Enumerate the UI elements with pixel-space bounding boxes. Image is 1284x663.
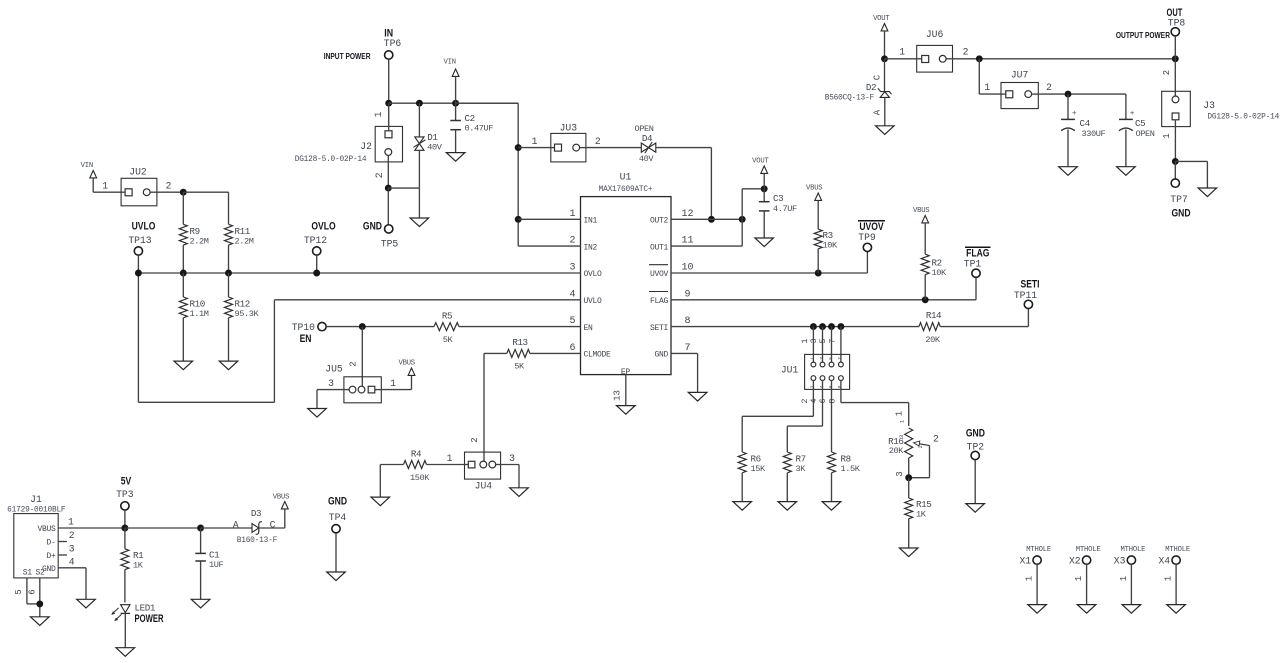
svg-text:R1: R1 bbox=[133, 550, 144, 561]
svg-text:TP13: TP13 bbox=[128, 235, 151, 246]
svg-text:12: 12 bbox=[681, 209, 693, 220]
svg-text:VBUS: VBUS bbox=[37, 525, 56, 534]
wire VBUS rail bbox=[125, 527, 201, 529]
svg-text:JU3: JU3 bbox=[560, 123, 578, 134]
wire OUT2 node up bbox=[741, 189, 743, 220]
junction R9 top bbox=[180, 189, 187, 196]
svg-text:7: 7 bbox=[827, 338, 837, 343]
junction R2 bottom bbox=[922, 296, 929, 303]
svg-text:6: 6 bbox=[27, 589, 37, 594]
wire R4 to JU4 bbox=[427, 464, 465, 466]
junction VOUT-D2 bbox=[881, 55, 888, 62]
wire U1 pin11 OUT1 bbox=[671, 245, 742, 247]
svg-text:2: 2 bbox=[470, 437, 480, 442]
svg-text:1: 1 bbox=[373, 111, 384, 117]
svg-text:J2: J2 bbox=[360, 141, 372, 152]
junction J2-D1 gnd node bbox=[385, 185, 392, 192]
resistor R15 1K bbox=[908, 478, 910, 498]
svg-text:U1: U1 bbox=[620, 172, 632, 183]
svg-text:MTHOLE: MTHOLE bbox=[1076, 546, 1101, 554]
wire TP13 down bbox=[137, 255, 139, 402]
ground (LED1) bbox=[116, 648, 135, 657]
svg-text:1K: 1K bbox=[916, 510, 927, 520]
svg-text:CLMODE: CLMODE bbox=[584, 351, 612, 360]
wire D4 to OUT2 node bbox=[656, 147, 712, 149]
svg-text:INPUT POWER: INPUT POWER bbox=[324, 51, 371, 61]
svg-text:VOUT: VOUT bbox=[752, 158, 769, 166]
ground (X3) bbox=[1122, 605, 1141, 614]
svg-text:1: 1 bbox=[1162, 133, 1172, 138]
svg-text:5V: 5V bbox=[121, 476, 132, 488]
svg-text:OUT: OUT bbox=[1167, 5, 1183, 18]
svg-text:C3: C3 bbox=[773, 193, 783, 204]
ground (J3) bbox=[1198, 188, 1217, 197]
wire to U1 pin1 IN1 bbox=[518, 218, 580, 220]
ground (X2) bbox=[1077, 605, 1096, 614]
wire D1 node to ground bbox=[418, 188, 420, 218]
wire input bus to corner bbox=[456, 102, 519, 104]
wire to U1 pin2 IN2 bbox=[518, 245, 580, 247]
svg-text:D3: D3 bbox=[251, 508, 261, 519]
svg-text:4.7UF: 4.7UF bbox=[773, 204, 797, 214]
svg-text:X1: X1 bbox=[1019, 556, 1031, 567]
wire R5 to U1 pin5 EN bbox=[459, 326, 581, 328]
wire JU7 branch bbox=[978, 59, 980, 94]
svg-text:C: C bbox=[872, 74, 882, 80]
svg-text:95.3K: 95.3K bbox=[235, 309, 260, 319]
ground (R8) bbox=[822, 502, 841, 511]
svg-text:EN: EN bbox=[300, 333, 312, 345]
wire J2 pin1 bbox=[388, 103, 390, 131]
svg-text:D-: D- bbox=[46, 539, 55, 548]
label OUTPUT POWER bbox=[1116, 30, 1171, 40]
svg-text:TP3: TP3 bbox=[116, 489, 134, 500]
svg-text:R12: R12 bbox=[235, 299, 250, 310]
svg-text:X2: X2 bbox=[1069, 556, 1081, 567]
wire JU1 pin2 to R6 bbox=[812, 381, 814, 417]
svg-text:R6: R6 bbox=[751, 454, 761, 465]
wire U1 pin12 OUT2 bbox=[671, 218, 742, 220]
svg-text:+: + bbox=[1072, 110, 1077, 118]
svg-text:JU6: JU6 bbox=[926, 29, 944, 40]
wire D3 cathode to VBUS bbox=[259, 527, 285, 529]
svg-text:1: 1 bbox=[390, 378, 396, 389]
svg-text:X4: X4 bbox=[1158, 556, 1170, 567]
svg-text:R10: R10 bbox=[190, 299, 205, 310]
svg-text:2: 2 bbox=[595, 136, 601, 147]
ground (U1 EP) bbox=[617, 406, 636, 415]
svg-text:GND: GND bbox=[328, 496, 347, 508]
svg-text:1: 1 bbox=[899, 47, 905, 58]
svg-text:1: 1 bbox=[1119, 576, 1129, 581]
ground (C3) bbox=[755, 238, 774, 247]
wire JU1 pin4 to R7 bbox=[822, 381, 824, 427]
junction IN1 bbox=[515, 216, 522, 223]
svg-text:JU2: JU2 bbox=[129, 167, 147, 178]
svg-text:3K: 3K bbox=[796, 464, 807, 474]
svg-text:MAX17609ATC+: MAX17609ATC+ bbox=[599, 186, 653, 194]
svg-text:2: 2 bbox=[69, 530, 75, 541]
svg-text:R14: R14 bbox=[926, 310, 942, 321]
svg-text:20K: 20K bbox=[889, 446, 905, 456]
svg-text:5K: 5K bbox=[514, 362, 525, 372]
svg-text:POWER: POWER bbox=[135, 613, 164, 626]
svg-text:R7: R7 bbox=[796, 454, 806, 465]
svg-text:1UF: 1UF bbox=[209, 560, 224, 570]
wire TP10 to R5 bbox=[326, 326, 434, 328]
wire TP6 to input node bbox=[388, 59, 390, 103]
svg-text:UVOV: UVOV bbox=[650, 270, 669, 279]
test point TP4 GND bbox=[328, 496, 347, 508]
svg-text:B160-13-F: B160-13-F bbox=[237, 537, 278, 545]
svg-text:3: 3 bbox=[509, 453, 515, 464]
test point TP2 GND bbox=[966, 428, 985, 440]
ground (C4) bbox=[1059, 167, 1078, 176]
svg-text:6: 6 bbox=[569, 343, 575, 354]
resistor R11 2.2M bbox=[228, 192, 230, 224]
wire U1 pin10 UVOV bbox=[671, 272, 867, 274]
svg-text:10K: 10K bbox=[932, 268, 948, 278]
ground (X1) bbox=[1028, 605, 1047, 614]
wire EN tap to JU5 bbox=[361, 327, 363, 387]
junction TP12-bus bbox=[313, 270, 320, 277]
test point TP3 5V bbox=[121, 476, 132, 488]
svg-text:X3: X3 bbox=[1114, 556, 1126, 567]
svg-text:11: 11 bbox=[681, 236, 693, 247]
LED LED1 POWER bbox=[121, 605, 130, 613]
ground (C1) bbox=[191, 599, 210, 608]
svg-text:0.47UF: 0.47UF bbox=[465, 123, 494, 133]
svg-text:A: A bbox=[233, 519, 239, 530]
svg-text:1: 1 bbox=[1074, 576, 1084, 581]
svg-text:40V: 40V bbox=[427, 143, 443, 153]
ground (R6) bbox=[733, 502, 752, 511]
svg-text:OVLO: OVLO bbox=[584, 270, 603, 279]
test point TP8 OUT bbox=[1167, 5, 1183, 18]
wire to R11 bbox=[183, 191, 228, 193]
svg-text:+: + bbox=[1130, 110, 1135, 118]
U1 pin 13 EP stub bbox=[625, 375, 627, 406]
wire R14 to TP11 bbox=[940, 326, 1028, 328]
svg-text:TP8: TP8 bbox=[1168, 18, 1186, 29]
svg-text:IN2: IN2 bbox=[584, 243, 598, 252]
svg-text:VIN: VIN bbox=[444, 59, 456, 67]
svg-text:JU5: JU5 bbox=[325, 364, 343, 375]
svg-text:R15: R15 bbox=[916, 499, 931, 510]
ground (X4) bbox=[1167, 605, 1186, 614]
svg-text:8: 8 bbox=[837, 385, 843, 388]
svg-text:4: 4 bbox=[69, 556, 75, 567]
svg-text:MTHOLE: MTHOLE bbox=[1165, 546, 1190, 554]
wire JU6 to OUT node bbox=[953, 58, 1176, 60]
svg-text:3: 3 bbox=[898, 435, 905, 438]
svg-text:5K: 5K bbox=[443, 335, 454, 345]
junction JU3 tap bbox=[515, 144, 522, 151]
svg-text:DG128-5.0-02P-14: DG128-5.0-02P-14 bbox=[295, 156, 367, 164]
test point TP11 SETI bbox=[1020, 279, 1039, 291]
ground (R15) bbox=[899, 548, 918, 557]
junction JU1 pin 3 bbox=[819, 323, 826, 330]
svg-text:3: 3 bbox=[69, 543, 75, 554]
ground (J1 GND) bbox=[77, 599, 96, 608]
op-amp U1 MAX17609ATC+ body bbox=[581, 197, 672, 375]
resistor R5 5K bbox=[434, 323, 459, 331]
junction R16-R15 bbox=[905, 474, 912, 481]
svg-text:1: 1 bbox=[895, 411, 905, 416]
svg-text:1: 1 bbox=[1025, 576, 1035, 581]
ground (JU4) bbox=[510, 488, 529, 497]
label INPUT POWER bbox=[324, 51, 371, 61]
svg-text:2: 2 bbox=[1162, 70, 1172, 75]
junction C3 top / VOUT bbox=[761, 185, 768, 192]
wire J3 pin1 down bbox=[1174, 120, 1176, 162]
svg-text:2: 2 bbox=[963, 47, 969, 58]
junction R9-R10 bbox=[180, 270, 187, 277]
junction JU5 tap bbox=[359, 323, 366, 330]
junction TP3-VBUS bbox=[121, 525, 128, 532]
resistor R12 95.3K bbox=[228, 273, 230, 297]
wire JU5 pin1 to VBUS bbox=[381, 389, 411, 391]
svg-text:2: 2 bbox=[349, 361, 359, 366]
U1 pin 7 GND wire bbox=[671, 352, 698, 354]
capacitor C3 4.7UF bbox=[763, 189, 765, 202]
svg-text:2.2M: 2.2M bbox=[190, 237, 209, 247]
svg-text:7: 7 bbox=[837, 357, 843, 360]
junction JU1 pin 1 bbox=[810, 323, 817, 330]
capacitor C4 330UF bbox=[1067, 94, 1069, 119]
wire down to U1 inputs bbox=[517, 103, 519, 246]
svg-text:VBUS: VBUS bbox=[806, 185, 822, 193]
wire J2 pin2 bbox=[387, 155, 389, 188]
svg-text:R2: R2 bbox=[932, 258, 942, 269]
ground (R7) bbox=[778, 502, 797, 511]
svg-text:IN1: IN1 bbox=[584, 217, 598, 226]
svg-text:TP6: TP6 bbox=[384, 38, 402, 49]
svg-text:VOUT: VOUT bbox=[873, 15, 890, 23]
svg-text:1: 1 bbox=[810, 357, 816, 360]
ground (R10) bbox=[174, 361, 193, 370]
svg-text:5: 5 bbox=[14, 589, 24, 594]
svg-text:MTHOLE: MTHOLE bbox=[1121, 546, 1146, 554]
wire OVLO bus to U1 pin3 bbox=[138, 272, 580, 274]
resistor R6 15K bbox=[738, 452, 746, 473]
svg-text:EN: EN bbox=[584, 324, 594, 333]
svg-text:1K: 1K bbox=[133, 561, 144, 571]
svg-text:2: 2 bbox=[810, 385, 816, 388]
resistor R8 1.5K bbox=[828, 452, 836, 473]
svg-text:2.2M: 2.2M bbox=[235, 237, 254, 247]
junction JU1 pin 7 bbox=[837, 323, 844, 330]
svg-text:1: 1 bbox=[984, 82, 990, 93]
junction R3 bottom bbox=[815, 270, 822, 277]
resistor R7 3K bbox=[783, 452, 791, 473]
svg-text:S2: S2 bbox=[35, 569, 45, 578]
junction JU7 tap bbox=[976, 55, 983, 62]
wire JU2 pin2 bbox=[157, 191, 183, 193]
capacitor C1 1UF bbox=[200, 528, 202, 553]
wire U1 pin8 SETI bbox=[671, 326, 919, 328]
junction D4-OUT2 bbox=[708, 216, 715, 223]
svg-text:D2: D2 bbox=[866, 82, 876, 93]
svg-text:10: 10 bbox=[681, 263, 693, 274]
junction TP13-bus bbox=[135, 270, 142, 277]
wire J3 to ground bbox=[1175, 160, 1207, 162]
svg-text:13: 13 bbox=[613, 390, 623, 401]
svg-text:TP4: TP4 bbox=[329, 512, 347, 523]
svg-text:8: 8 bbox=[827, 398, 837, 403]
ground (input) bbox=[410, 218, 429, 227]
svg-text:OVLO: OVLO bbox=[311, 220, 336, 232]
svg-text:1.5K: 1.5K bbox=[841, 464, 861, 474]
svg-text:TP11: TP11 bbox=[1014, 290, 1037, 301]
wire JU3 to D4 bbox=[586, 147, 641, 149]
svg-text:B560CQ-13-F: B560CQ-13-F bbox=[825, 95, 875, 103]
svg-text:C1: C1 bbox=[209, 550, 220, 561]
svg-text:R4: R4 bbox=[411, 449, 422, 460]
svg-text:R11: R11 bbox=[235, 226, 251, 237]
svg-text:1: 1 bbox=[569, 209, 575, 220]
svg-text:VBUS: VBUS bbox=[273, 494, 289, 502]
test point TP9 UVOV bbox=[859, 221, 884, 233]
svg-text:UVLO: UVLO bbox=[584, 297, 603, 306]
svg-text:J1: J1 bbox=[30, 494, 42, 505]
svg-text:5: 5 bbox=[828, 357, 834, 360]
svg-text:JU4: JU4 bbox=[475, 481, 493, 492]
wire R13 to U1 pin6 bbox=[530, 352, 581, 354]
svg-text:S1: S1 bbox=[23, 569, 33, 578]
svg-text:OUT2: OUT2 bbox=[650, 217, 669, 226]
svg-text:7: 7 bbox=[684, 343, 690, 354]
svg-text:R8: R8 bbox=[841, 454, 851, 465]
ground (J1 shield) bbox=[31, 617, 50, 626]
svg-text:3: 3 bbox=[819, 357, 825, 360]
test point TP5 GND bbox=[363, 220, 382, 232]
wire R13 to JU4 pin2 bbox=[484, 352, 507, 354]
svg-text:2: 2 bbox=[569, 236, 575, 247]
svg-text:3: 3 bbox=[895, 471, 905, 476]
connector J3 bbox=[1162, 91, 1191, 126]
wire JU5 pin3 to ground bbox=[317, 389, 344, 391]
ground (TP4) bbox=[327, 572, 346, 581]
svg-text:1.1M: 1.1M bbox=[190, 309, 209, 319]
svg-text:4: 4 bbox=[819, 385, 825, 388]
svg-text:2: 2 bbox=[933, 434, 939, 445]
junction JU1 pin 5 bbox=[828, 323, 835, 330]
junction TP8 bbox=[1172, 55, 1179, 62]
svg-text:VIN: VIN bbox=[81, 162, 93, 170]
svg-text:C5: C5 bbox=[1135, 118, 1145, 129]
svg-text:SETI: SETI bbox=[650, 324, 668, 333]
wire to D1 bottom bbox=[388, 187, 419, 189]
svg-text:R13: R13 bbox=[512, 337, 527, 348]
svg-text:8: 8 bbox=[684, 316, 690, 327]
ground (D2) bbox=[876, 126, 895, 135]
svg-text:2: 2 bbox=[374, 172, 385, 178]
junction C4 top bbox=[1065, 91, 1072, 98]
junction C2 top bbox=[452, 100, 459, 107]
svg-text:D+: D+ bbox=[46, 552, 56, 561]
wire U1 pin9 FLAG bbox=[671, 299, 976, 301]
wire to D3 anode bbox=[201, 527, 252, 529]
test point TP7 GND bbox=[1174, 161, 1176, 179]
ground (C2) bbox=[446, 153, 465, 162]
wire TP12 down bbox=[316, 255, 318, 273]
svg-text:330UF: 330UF bbox=[1082, 129, 1106, 139]
svg-text:GND: GND bbox=[654, 351, 668, 360]
ground (R4) bbox=[371, 497, 390, 506]
wire JU7 to C4/C5 bbox=[1038, 93, 1126, 95]
test point TP13 UVLO bbox=[132, 220, 156, 232]
svg-text:R5: R5 bbox=[442, 311, 452, 322]
svg-text:VBUS: VBUS bbox=[913, 207, 929, 215]
svg-text:3: 3 bbox=[328, 378, 334, 389]
wire VIN to JU2 bbox=[93, 191, 121, 193]
svg-text:C4: C4 bbox=[1080, 118, 1091, 129]
diode D1 40V (TVS) bbox=[418, 103, 420, 137]
capacitor C2 0.47UF bbox=[452, 69, 459, 76]
junction S1-S2 bbox=[36, 600, 43, 607]
node VIN junction at J2 bbox=[385, 100, 392, 107]
test point TP6 IN bbox=[384, 28, 393, 40]
svg-text:6: 6 bbox=[828, 385, 834, 388]
svg-text:2: 2 bbox=[166, 181, 172, 192]
svg-text:TP7: TP7 bbox=[1170, 194, 1188, 205]
wire JU1 pin8 to R16 bbox=[840, 381, 842, 403]
svg-text:TP10: TP10 bbox=[292, 322, 315, 333]
svg-text:JU7: JU7 bbox=[1011, 70, 1029, 81]
svg-text:2: 2 bbox=[1046, 82, 1052, 93]
ground (U1 GND) bbox=[688, 392, 707, 401]
svg-text:C: C bbox=[270, 519, 276, 530]
svg-text:20K: 20K bbox=[925, 335, 941, 345]
diode D2 B560CQ-13-F bbox=[884, 59, 886, 92]
svg-text:1: 1 bbox=[102, 181, 108, 192]
resistor R1 1K bbox=[124, 528, 126, 549]
resistor R9 2.2M bbox=[182, 192, 184, 224]
svg-text:4: 4 bbox=[569, 289, 575, 300]
svg-text:1: 1 bbox=[1164, 576, 1174, 581]
svg-text:10K: 10K bbox=[823, 241, 839, 251]
svg-text:R3: R3 bbox=[823, 230, 833, 241]
svg-text:R9: R9 bbox=[190, 226, 200, 237]
svg-text:J3: J3 bbox=[1203, 100, 1215, 111]
svg-text:GND: GND bbox=[363, 220, 382, 232]
svg-text:VBUS: VBUS bbox=[398, 360, 414, 368]
svg-text:FLAG: FLAG bbox=[650, 297, 669, 306]
svg-text:GND: GND bbox=[1171, 207, 1190, 219]
wire VOUT to JU6 bbox=[885, 58, 917, 60]
svg-text:1: 1 bbox=[532, 136, 538, 147]
wire to JU3 pin1 bbox=[518, 147, 551, 149]
svg-text:TP5: TP5 bbox=[381, 239, 399, 250]
wire UVLO loop to U1 pin4 bbox=[138, 401, 274, 403]
svg-text:TP1: TP1 bbox=[964, 259, 982, 270]
capacitor C5 OPEN bbox=[1125, 94, 1127, 119]
wire OUT to J3 pin2 bbox=[1174, 59, 1176, 96]
junction R11-R12 bbox=[225, 270, 232, 277]
svg-text:40V: 40V bbox=[639, 154, 655, 164]
svg-text:MTHOLE: MTHOLE bbox=[1026, 546, 1051, 554]
ground (R12) bbox=[219, 361, 238, 370]
ground (JU5) bbox=[308, 409, 327, 418]
svg-text:3: 3 bbox=[569, 263, 575, 274]
svg-text:1: 1 bbox=[68, 517, 74, 528]
svg-text:1: 1 bbox=[447, 453, 453, 464]
jumper JU4 bbox=[465, 452, 501, 479]
wire JU4 pin3 to ground bbox=[501, 464, 519, 466]
svg-text:TP9: TP9 bbox=[858, 232, 876, 243]
svg-text:TP12: TP12 bbox=[304, 235, 327, 246]
